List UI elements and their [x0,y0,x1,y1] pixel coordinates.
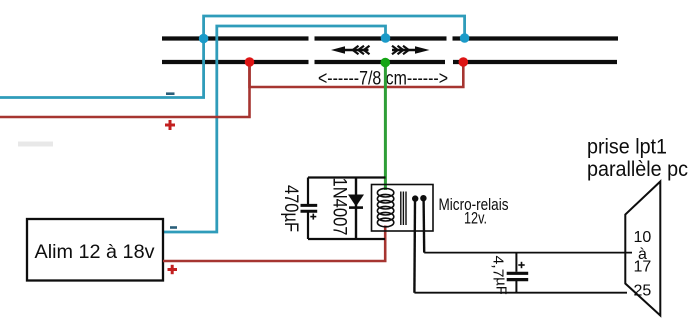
relay contact pin 1 (left) [412,195,418,292]
node D: red tap left on bottom rail [245,57,255,67]
label plus C2 [518,262,524,268]
label minus (supply output) [170,226,177,229]
svg-text:prise lpt1: prise lpt1 [587,135,667,159]
svg-text:4,7: 4,7 [490,256,507,278]
wire: top rail middle segment [315,36,447,40]
node B: blue tap center on top rail [381,33,391,43]
svg-text:Alim 12 à 18v: Alim 12 à 18v [35,241,155,263]
wire: contact pin 1 to lpt1 pin 25 [414,292,627,294]
label minus (left feed) [166,92,175,95]
relay coil [377,188,393,226]
wire: green from node G down to relay coil top [384,62,387,190]
svg-text:parallèle pc: parallèle pc [587,157,688,181]
wire: blue from node A to left board edge [0,39,204,98]
svg-text:µF: µF [493,277,510,295]
right direction arrow [392,46,430,54]
diode D1 1N4007 [348,178,364,240]
connector J1 lpt1 DB25 (side view) [625,182,660,316]
wire: red supply plus to relay coil return [163,226,385,262]
svg-text:12v.: 12v. [464,210,487,228]
capacitor C2 4,7µF [507,253,529,293]
wire: black bottom bus from capacitor/diode to coil return junction [308,238,385,240]
node A: blue tap left on top rail [199,34,209,44]
relay K1 body [372,185,434,232]
relay core [401,192,406,226]
label plus (left feed) [165,120,175,130]
left direction arrow [331,46,370,54]
wire: contact pin 2 to lpt1 pins 10-17 [424,252,632,254]
node G: green tap center on bottom rail [381,58,391,68]
wire: bottom rail right segment [453,60,617,64]
svg-text:17: 17 [634,259,652,276]
relay contact pin 2 (right) [420,195,426,253]
wire: red from node D to left board edge [0,62,250,117]
wire: red jumper bottom rail, node D to node E [250,62,464,87]
node C: blue tap right on top rail [460,33,470,43]
label plus C1 [310,214,316,220]
power supply box Alim 12 à 18v [27,219,163,281]
svg-text:1N4007: 1N4007 [328,178,349,236]
wire: top rail left segment [162,36,309,40]
wire: blue jumper over gaps, node A to node C [204,16,465,39]
label plus (supply output) [168,265,178,274]
wire: bottom rail left segment [162,60,309,64]
wire: top rail right segment [453,36,619,40]
wire: black top bus from capacitor/diode to coil top junction [308,176,386,178]
wire: bottom rail middle segment [315,60,446,64]
capacitor C1 470µF [301,178,318,240]
node E: red tap right on bottom rail [459,57,469,67]
svg-text:10: 10 [634,229,652,246]
svg-text:470µF: 470µF [280,185,301,232]
svg-text:25: 25 [634,283,652,300]
wire: blue feed from node B to supply minus [163,26,386,232]
